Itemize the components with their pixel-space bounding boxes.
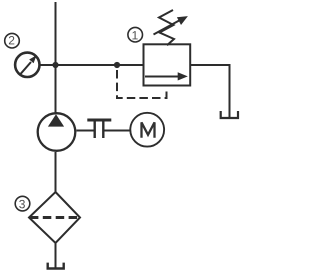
relief valve V1 body (item 1) xyxy=(144,44,191,85)
tank T2 (bottom suction tank) xyxy=(48,263,64,269)
label 2 (balloon for gauge) xyxy=(5,33,20,48)
node: junction at pilot tap xyxy=(114,62,120,68)
filter F1 (item 3) xyxy=(29,192,80,243)
wire: shaft line coupling to motor xyxy=(103,130,130,132)
wire: filter to tank xyxy=(55,243,57,268)
wire: main vertical supply line (top) xyxy=(55,2,57,113)
tank T1 (right drain tank) xyxy=(221,111,238,118)
relief valve flow arrow xyxy=(145,72,188,80)
pump P1 (fixed displacement) xyxy=(38,113,76,151)
coupling (shaft coupling symbol) xyxy=(87,120,111,138)
gauge PG (pressure gauge, item 2) xyxy=(15,53,39,77)
wire: shaft line pump to coupling xyxy=(77,130,95,132)
node: junction at vertical line xyxy=(52,62,58,68)
wire: suction line pump to filter xyxy=(55,152,57,193)
motor M1 (electric motor) xyxy=(130,113,164,147)
label 1 (balloon for relief valve) xyxy=(128,27,143,42)
wire: main horizontal line gauge to valve xyxy=(40,64,144,66)
label 3 (balloon for filter) xyxy=(15,196,30,211)
wire: pilot line (dashed) from node to valve bottom xyxy=(117,67,167,98)
spring (adjustable) of relief valve xyxy=(159,10,174,45)
wire: drain line from valve to tank xyxy=(190,65,229,118)
adjustment arrow across spring xyxy=(154,16,188,34)
